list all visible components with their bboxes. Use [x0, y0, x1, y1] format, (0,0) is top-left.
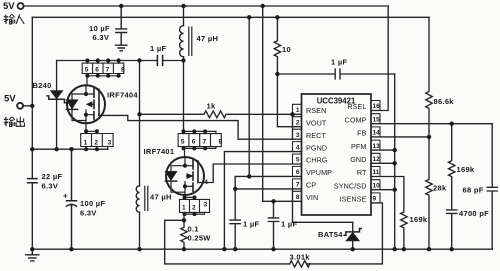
wire switch node line (top of IRF7404) — [57, 60, 158, 62]
svg-text:0.1: 0.1 — [188, 225, 199, 234]
inductor L1 47uH — [183, 6, 185, 26]
svg-text:4700 pF: 4700 pF — [459, 209, 489, 218]
svg-text:COMP: COMP — [345, 115, 367, 124]
ground symbol at 10uF — [116, 45, 127, 51]
svg-text:2: 2 — [94, 140, 98, 147]
resistor R 3.01k — [290, 261, 310, 267]
transistor Q1 IRF7404 internals — [72, 85, 86, 123]
node dots output rail — [30, 147, 34, 151]
svg-text:3: 3 — [296, 132, 300, 139]
wire gate of IRF7401 to CHRG pin5 — [198, 164, 302, 183]
capacitor C 1uF coupling — [157, 56, 162, 66]
svg-text:2: 2 — [192, 205, 196, 212]
node dots switch line — [85, 58, 89, 62]
svg-text:2: 2 — [296, 119, 300, 126]
wire VIN pin8 from input rail — [263, 6, 302, 201]
wire output rail2 (upper horizontal from left bus) — [32, 16, 429, 18]
svg-text:IRF7404: IRF7404 — [107, 91, 138, 100]
svg-text:1 µF: 1 µF — [150, 44, 166, 53]
svg-text:1: 1 — [84, 140, 88, 147]
svg-text:5V: 5V — [3, 1, 15, 12]
wire bottom ground rail — [32, 248, 492, 250]
svg-text:169k: 169k — [457, 165, 475, 174]
terminal 5V input — [18, 3, 24, 9]
label 输入 (input) glyphs — [4, 14, 25, 24]
node dots VPUMP CP VIN — [247, 174, 251, 178]
IC U1 left pin ladder boxes — [293, 104, 302, 201]
svg-text:9: 9 — [373, 196, 377, 203]
svg-text:15: 15 — [373, 116, 381, 123]
svg-text:13: 13 — [373, 143, 381, 150]
wire output terminal to bus — [23, 105, 32, 107]
wire drain node vertical x139.5 (to gate-sense node and L2) — [139, 61, 141, 186]
svg-text:BAT54: BAT54 — [318, 230, 343, 239]
svg-text:14: 14 — [373, 130, 381, 137]
svg-text:7: 7 — [296, 182, 300, 189]
svg-text:1 µF: 1 µF — [243, 220, 259, 229]
svg-text:6.3V: 6.3V — [93, 33, 110, 42]
transistor Q1 IRF7404 pin boxes 5-8 bottom stubs and collector — [87, 74, 119, 86]
svg-text:7: 7 — [203, 139, 207, 146]
svg-text:3.01k: 3.01k — [290, 253, 311, 262]
wire RECT stub into chip — [293, 138, 302, 140]
svg-text:169k: 169k — [410, 215, 428, 224]
diode D B240 schottky — [56, 61, 58, 91]
svg-text:1: 1 — [182, 205, 186, 212]
wire SYNC/SD pin10 stub — [371, 189, 395, 191]
svg-text:1: 1 — [296, 107, 300, 114]
wire left bus lower section — [31, 183, 33, 249]
node dot sense junction — [182, 218, 186, 222]
svg-text:47 µH: 47 µH — [197, 34, 219, 43]
svg-text:5: 5 — [181, 139, 185, 146]
node dots right network — [427, 135, 431, 139]
resistor R 169k upper and capacitor C 4700pF — [447, 124, 457, 250]
svg-text:RT: RT — [357, 168, 367, 177]
svg-text:47 µH: 47 µH — [150, 193, 172, 202]
svg-text:10: 10 — [282, 45, 291, 54]
capacitor C 1uF VIN bypass — [268, 201, 278, 249]
svg-text:CHRG: CHRG — [306, 156, 328, 165]
transistor Q2 IRF7401 pin boxes 5-8 — [178, 134, 221, 147]
node dot output terminal — [30, 104, 34, 108]
svg-text:7: 7 — [106, 67, 110, 74]
wire switch line right of coupling cap — [163, 60, 184, 62]
wire CP to BAT54 — [293, 189, 353, 222]
wire PFM pin13 stub — [371, 149, 395, 151]
svg-text:RSEN: RSEN — [306, 106, 326, 115]
capacitor C 1uF VPUMP bypass — [230, 220, 240, 224]
node dots input rail — [119, 4, 123, 8]
wire ISENSE return (to 3.01k) — [165, 220, 290, 264]
resistor R 0.1 0.25W current sense — [181, 220, 187, 249]
node dot VOUT filter — [275, 72, 279, 76]
svg-text:ISENSE: ISENSE — [340, 195, 367, 204]
node dots IRF7404 internal — [84, 92, 88, 96]
node dots IRF7404 source boxes — [84, 129, 88, 133]
svg-text:B240: B240 — [33, 81, 52, 90]
capacitor C 10uF input bypass — [116, 6, 127, 45]
inductor L2 47uH — [136, 186, 139, 212]
resistor R 86.6k from output rail — [426, 17, 432, 137]
svg-text:VIN: VIN — [306, 193, 318, 202]
capacitor C 68pF and wire — [487, 124, 497, 250]
svg-text:VOUT: VOUT — [306, 118, 327, 127]
IC U1 right pin ladder boxes — [371, 101, 380, 203]
svg-text:6.3V: 6.3V — [80, 209, 97, 218]
wire output rail (5V out horizontal) — [32, 148, 108, 150]
svg-text:IRF7401: IRF7401 — [144, 147, 175, 156]
capacitor C 100uF polarized — [67, 149, 77, 249]
wire VPUMP feed from output rail x249.2 — [248, 17, 250, 176]
node dots IRF7401 source boxes — [183, 195, 187, 199]
label 输出 (output) glyphs — [4, 117, 25, 127]
svg-text:5: 5 — [296, 157, 300, 164]
svg-text:8: 8 — [219, 139, 223, 146]
IC U1 UCC39421 body — [302, 94, 372, 215]
svg-text:SYNC/SD: SYNC/SD — [334, 181, 367, 190]
wire left vertical bus (upper section to 22uF) — [31, 17, 33, 178]
svg-text:4: 4 — [296, 144, 300, 151]
svg-text:6: 6 — [296, 169, 300, 176]
wire RT pin11 and resistor R 169k lower — [371, 177, 407, 250]
svg-text:FB: FB — [357, 129, 366, 138]
svg-text:1 µF: 1 µF — [331, 58, 347, 67]
svg-text:CP: CP — [306, 181, 316, 190]
svg-text:10: 10 — [373, 182, 381, 189]
svg-text:6: 6 — [192, 139, 196, 146]
resistor R 10 (output rail to VOUT) — [274, 17, 301, 126]
svg-text:22 µF: 22 µF — [42, 172, 63, 181]
wire CP pin7 line — [235, 188, 301, 190]
svg-text:3: 3 — [204, 202, 208, 209]
wire COMP pin15 line — [371, 123, 492, 125]
capacitor C 22uF in left bus — [28, 179, 37, 183]
svg-text:6.3V: 6.3V — [42, 182, 59, 191]
svg-text:GND: GND — [350, 155, 366, 164]
transistor Q2 IRF7401 source boxes 1-3 — [185, 195, 195, 199]
svg-text:8: 8 — [121, 67, 125, 74]
wire 5V input rail (top rail VIN) — [24, 5, 388, 7]
terminal 5V output — [17, 103, 23, 109]
wire gate of IRF7404 to RECT pin3 — [99, 115, 293, 139]
svg-text:PFM: PFM — [351, 142, 366, 151]
svg-text:86.6k: 86.6k — [434, 97, 455, 106]
svg-text:5: 5 — [85, 67, 89, 74]
svg-text:28k: 28k — [433, 184, 447, 193]
resistor R 28k — [426, 137, 432, 249]
wire GND pin12 stub — [371, 162, 395, 164]
svg-text:4: 4 — [204, 179, 208, 186]
svg-text:VPUMP: VPUMP — [306, 168, 332, 177]
svg-text:6: 6 — [95, 67, 99, 74]
wire RSEN to RECT vertical link — [292, 114, 294, 139]
node dots IRF7401 internal — [183, 164, 187, 168]
svg-text:16: 16 — [373, 103, 381, 110]
svg-text:100 µF: 100 µF — [80, 199, 105, 208]
node dots IRF7404 collector — [85, 74, 89, 78]
transistor Q2 IRF7401 drain boxes 5-8 top stubs — [184, 131, 217, 133]
svg-text:PGND: PGND — [306, 143, 327, 152]
svg-text:12: 12 — [373, 156, 381, 163]
svg-text:10 µF: 10 µF — [89, 24, 110, 33]
svg-text:RECT: RECT — [306, 131, 326, 140]
wire 3.01k to ISENSE pin9 — [307, 203, 382, 264]
svg-text:1k: 1k — [207, 102, 216, 111]
svg-text:RSEL: RSEL — [347, 102, 366, 111]
wire PGND pin4 to ground — [224, 152, 301, 250]
node dot gate sense — [137, 112, 141, 116]
transistor Q2 IRF7401 boxes bottom collector — [184, 147, 216, 158]
wire FB pin14 stub — [371, 136, 429, 138]
svg-text:5V: 5V — [4, 94, 16, 105]
svg-text:1 µF: 1 µF — [281, 220, 297, 229]
svg-text:0.25W: 0.25W — [188, 234, 212, 243]
svg-text:8: 8 — [296, 194, 300, 201]
svg-text:3: 3 — [108, 140, 112, 147]
svg-text:68 pF: 68 pF — [463, 186, 484, 195]
resistor R 1k (gate node to RSEN) — [140, 111, 302, 118]
ground symbol main — [26, 249, 39, 261]
node dots bottom rail — [30, 247, 34, 251]
transistor Q1 IRF7404 body circle — [67, 85, 105, 123]
node dot RSEN-RECT — [290, 112, 294, 116]
transistor Q2 IRF7401 body circle — [166, 157, 204, 195]
transistor Q1 IRF7404 pin boxes 5-8 — [82, 63, 124, 73]
wire RSEL drop from input rail to pin16 — [371, 6, 388, 111]
diode D BAT54 schottky — [352, 222, 354, 231]
transistor Q1 IRF7404 bottom lead and source boxes 1-3 — [86, 123, 97, 133]
wire GND vertical x394.7 (PFM GND SYNC to ground) — [394, 74, 396, 249]
transistor Q1 IRF7404 pin boxes 5-8 top stubs — [87, 61, 118, 64]
transistor Q2 IRF7401 internals — [171, 157, 185, 195]
capacitor C 1uF VOUT bypass — [277, 69, 394, 79]
node dots output rail2 — [247, 15, 251, 19]
svg-text:11: 11 — [373, 169, 380, 176]
node dots IRF7401 drain — [181, 129, 185, 133]
wire VPUMP pin6 line — [235, 176, 301, 219]
svg-text:+: + — [63, 192, 68, 201]
